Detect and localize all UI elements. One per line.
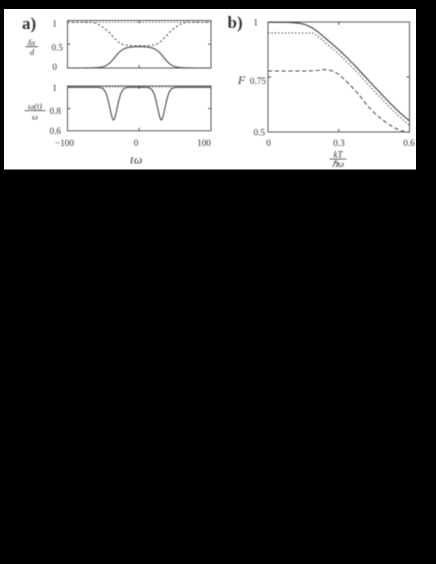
svg-text:tω: tω: [130, 153, 143, 167]
svg-text:1: 1: [253, 18, 258, 28]
svg-text:b): b): [228, 13, 243, 32]
svg-text:a): a): [22, 14, 36, 33]
figure white background: [4, 9, 416, 170]
dotted curve b: [268, 33, 410, 125]
svg-text:F: F: [237, 73, 246, 87]
svg-text:1: 1: [52, 83, 57, 93]
svg-text:0.5: 0.5: [254, 127, 266, 137]
solid curve b: [268, 22, 410, 121]
svg-text:−100: −100: [55, 138, 74, 148]
dashed curve a-top: [68, 22, 212, 45]
svg-text:ℏω: ℏω: [332, 159, 344, 169]
svg-text:0.6: 0.6: [50, 126, 62, 136]
svg-text:100: 100: [197, 138, 211, 148]
solid curve a-bottom two dips: [68, 87, 212, 120]
frame plot b: [268, 22, 410, 132]
svg-text:δx: δx: [28, 37, 36, 47]
dashed curve b: [268, 70, 410, 133]
solid curve a-top: [68, 47, 212, 68]
frame plot a-bottom: [68, 86, 212, 131]
dotted reference line v=1 a-top: [69, 21, 211, 23]
svg-text:0.8: 0.8: [50, 106, 62, 116]
svg-text:0: 0: [266, 138, 271, 148]
svg-text:1: 1: [52, 18, 57, 28]
ticks plot a-top: [68, 21, 212, 69]
frame plot a-top: [68, 21, 212, 69]
x axis fraction kT over hbar-omega: [330, 149, 347, 168]
ticks plot a-bottom: [68, 86, 212, 131]
svg-text:0: 0: [52, 62, 57, 72]
svg-text:0.75: 0.75: [250, 76, 266, 86]
y axis fraction delta-x over d: [26, 37, 39, 57]
svg-text:0: 0: [134, 138, 139, 148]
ticks plot b: [268, 22, 410, 132]
svg-text:ω(t): ω(t): [28, 101, 42, 111]
y axis fraction omega(t) over omega: [25, 101, 46, 122]
svg-text:ω: ω: [32, 111, 38, 121]
dotted reference line v=1 a-bottom: [69, 86, 211, 88]
svg-text:0.3: 0.3: [333, 138, 345, 148]
svg-text:0.6: 0.6: [403, 138, 415, 148]
svg-text:0.5: 0.5: [52, 42, 64, 52]
